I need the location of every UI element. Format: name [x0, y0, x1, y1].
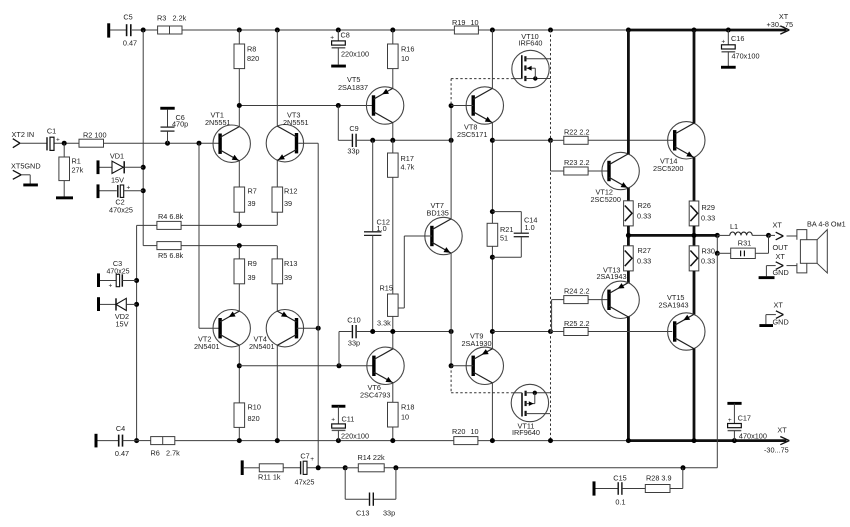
- terminal bar (C15 ground side): [593, 481, 596, 495]
- resistor R3 2.2k: [157, 14, 187, 35]
- svg-text:0.1: 0.1: [615, 498, 625, 507]
- capacitor C9 33p (Miller): [338, 106, 372, 156]
- wire: feedback line to output: [384, 253, 717, 470]
- svg-text:R19: R19: [452, 18, 465, 27]
- resistor R26 0.33: [624, 201, 652, 226]
- svg-text:OUT: OUT: [773, 243, 789, 252]
- svg-text:2SC4793: 2SC4793: [360, 391, 390, 400]
- inductor L1: [717, 222, 771, 238]
- wire: NPN pair tail line: [181, 223, 277, 228]
- svg-text:0.33: 0.33: [701, 214, 715, 223]
- connector XT -30...75 (bottom right): [764, 426, 789, 455]
- svg-text:R31: R31: [738, 239, 751, 248]
- ground (speaker return): [759, 276, 775, 279]
- svg-text:3.3k: 3.3k: [377, 319, 391, 328]
- svg-text:220x100: 220x100: [341, 50, 369, 59]
- svg-text:C15: C15: [613, 474, 626, 483]
- resistor R16 10: [388, 30, 415, 69]
- resistor R22 2.2: [551, 128, 590, 145]
- svg-text:R9: R9: [248, 259, 257, 268]
- svg-text:0.47: 0.47: [123, 39, 137, 48]
- svg-text:R27: R27: [638, 246, 651, 255]
- svg-text:R11 1k: R11 1k: [258, 473, 281, 482]
- svg-text:R8: R8: [247, 45, 256, 54]
- capacitor C15 0.1 (Zobel): [596, 474, 646, 507]
- capacitor C5 0.47: [110, 13, 137, 48]
- svg-text:R6: R6: [151, 449, 160, 458]
- wire: VT3 base to feedback node: [298, 142, 318, 144]
- svg-text:R4 6.8k: R4 6.8k: [158, 212, 183, 221]
- svg-text:R29: R29: [702, 203, 715, 212]
- svg-text:BD135: BD135: [427, 209, 449, 218]
- svg-text:2.7k: 2.7k: [166, 449, 180, 458]
- capacitor C3 470x25 (electrolytic): [100, 259, 137, 290]
- svg-text:R14 22k: R14 22k: [358, 453, 386, 462]
- svg-text:2SA1943: 2SA1943: [597, 272, 627, 281]
- svg-text:IRF640: IRF640: [519, 39, 543, 48]
- svg-text:XT: XT: [773, 221, 783, 230]
- wire: top driver output segment: [492, 138, 553, 143]
- node: feedback node (VT3/VT4 bases): [316, 465, 321, 470]
- svg-text:C4: C4: [116, 424, 125, 433]
- svg-text:R12: R12: [284, 187, 297, 196]
- wire: bottom negative supply rail (thin section): [175, 438, 629, 443]
- capacitor C14 1.0 (across R21): [492, 212, 537, 258]
- svg-text:XT: XT: [774, 301, 784, 310]
- connector XT GND (power ground): [766, 301, 789, 327]
- svg-text:+: +: [330, 34, 334, 41]
- capacitor C2 470x25 (electrolytic): [100, 185, 144, 215]
- capacitor C12 1.0: [364, 140, 390, 331]
- wire: VT12 emitter to R26 (thick): [627, 188, 630, 201]
- resistor R6 2.7k: [137, 437, 181, 458]
- connector XT +30...75 (top right): [767, 12, 794, 34]
- wire: VT7 emitter to VAS bottom rail: [450, 253, 452, 332]
- wire: VT2 collector to R10: [237, 345, 242, 403]
- wire: feedback vertical (VT3/VT4 bases to R14 node): [317, 143, 319, 468]
- svg-text:R22 2.2: R22 2.2: [564, 128, 590, 137]
- wire: R30 to VT15 emitter (thick): [693, 271, 696, 315]
- wire: VT8 collector to +rail: [491, 30, 493, 89]
- svg-text:C9: C9: [349, 124, 358, 133]
- svg-text:R28 3.9: R28 3.9: [646, 474, 672, 483]
- wire: output rail (thick): [626, 233, 720, 238]
- svg-text:GND: GND: [773, 318, 789, 327]
- ground (power): [759, 324, 773, 327]
- svg-text:33p: 33p: [383, 509, 395, 518]
- resistor R17 4.7k: [388, 140, 415, 177]
- svg-text:R7: R7: [248, 187, 257, 196]
- terminal bar (C3 ground side): [97, 273, 100, 287]
- svg-text:+30...75: +30...75: [767, 20, 794, 29]
- resistor R21 51: [487, 223, 513, 246]
- transistor VT5 2SA1837: [338, 75, 404, 124]
- svg-text:2SA1943: 2SA1943: [659, 301, 689, 310]
- svg-text:39: 39: [284, 273, 292, 282]
- svg-text:R26: R26: [638, 201, 651, 210]
- wire: R23 to VT12 base: [588, 170, 607, 172]
- svg-text:10: 10: [471, 427, 479, 436]
- resistor R29 0.33: [689, 201, 715, 226]
- svg-text:2SC5171: 2SC5171: [457, 130, 487, 139]
- transistor VT15 2SA1943: [659, 293, 706, 350]
- wire: VT6 emitter to R18: [392, 383, 394, 403]
- capacitor C6 470p (input filter): [160, 107, 188, 143]
- wire: dashed drain link VT11 (-rail): [550, 332, 552, 441]
- wire: VAS bottom rail: [370, 329, 453, 334]
- svg-text:2SA1930: 2SA1930: [462, 339, 492, 348]
- wire: top positive supply rail (thin section): [110, 28, 628, 33]
- resistor R24 2.2: [552, 287, 590, 332]
- resistor R27 0.33: [624, 235, 652, 271]
- resistor R28 3.9 (Zobel): [645, 468, 683, 493]
- svg-text:2N5551: 2N5551: [205, 118, 231, 127]
- connector XT2 IN (input): [12, 130, 47, 148]
- capacitor C17 470x100 (electrolytic to ground): [727, 402, 767, 441]
- wire: VT2 emitter to R9: [238, 284, 240, 312]
- svg-text:+: +: [331, 417, 335, 424]
- wire: VT8 base tie: [449, 103, 454, 140]
- connector XT OUT: [769, 221, 794, 253]
- svg-text:33p: 33p: [348, 339, 360, 348]
- wire: VT8 emitter down to R21: [490, 123, 495, 224]
- wire: VT12 collector to +rail (thick): [627, 30, 630, 154]
- svg-text:10: 10: [471, 18, 479, 27]
- trimmer R15 3.3k: [377, 177, 404, 331]
- svg-text:R16: R16: [401, 45, 414, 54]
- resistor R9 39: [234, 246, 257, 284]
- zener diode VD1 15V: [100, 152, 144, 185]
- transistor VT7 BD135 (bias servo): [425, 201, 462, 255]
- svg-text:C11: C11: [342, 415, 355, 424]
- terminal bar (VD2 ground side): [97, 297, 100, 311]
- svg-text:R10: R10: [248, 403, 261, 412]
- wire: bottom negative supply rail (thick section): [626, 438, 787, 443]
- svg-text:R13: R13: [284, 259, 297, 268]
- svg-text:C13: C13: [356, 509, 369, 518]
- wire: VT4 emitter to R13: [276, 284, 278, 312]
- wire: R15 wiper to VT7 base: [404, 235, 432, 237]
- svg-text:R24 2.2: R24 2.2: [564, 287, 590, 296]
- wire: R27 to VT13 emitter (thick): [627, 271, 630, 283]
- zener diode VD2 15V: [100, 298, 137, 328]
- svg-text:BA 4-8 Ом1: BA 4-8 Ом1: [807, 220, 846, 229]
- svg-text:39: 39: [248, 199, 256, 208]
- wire: VT14 emitter to R29 (thick): [693, 157, 696, 201]
- svg-text:C7: C7: [300, 452, 309, 461]
- wire: VT9 collector to -rail: [491, 383, 493, 441]
- svg-text:VD1: VD1: [110, 152, 124, 161]
- svg-text:R18: R18: [401, 403, 414, 412]
- speaker BA 4-8 Om1: [794, 220, 846, 274]
- wire: PNP pair tail line: [181, 243, 277, 248]
- svg-text:15V: 15V: [111, 176, 124, 185]
- transistor VT12 2SC5200: [591, 152, 640, 204]
- svg-text:1.0: 1.0: [525, 223, 535, 232]
- mosfet VT10 IRF640: [512, 32, 551, 88]
- transistor VT13 2SA1943: [597, 265, 640, 318]
- wire: VT3 emitter to R12: [276, 160, 278, 187]
- capacitor C11 220x100 (electrolytic to ground): [331, 405, 369, 441]
- connector XT GND (speaker return): [766, 252, 793, 277]
- svg-text:27k: 27k: [72, 166, 84, 175]
- wire: VT3 collector to +rail: [276, 30, 278, 126]
- ground (R1): [56, 196, 73, 199]
- svg-text:IRF9640: IRF9640: [512, 428, 540, 437]
- wire: bottom driver output segment: [492, 329, 553, 334]
- resistor R18 10: [388, 402, 415, 440]
- svg-text:R25 2.2: R25 2.2: [564, 319, 590, 328]
- wire: VT7 collector to VAS top rail: [450, 140, 452, 219]
- capacitor C7 47x25 (electrolytic): [283, 452, 345, 487]
- svg-text:820: 820: [247, 54, 259, 63]
- svg-text:C17: C17: [738, 414, 751, 423]
- wire: R24 to VT13 base: [588, 299, 607, 301]
- svg-text:39: 39: [248, 273, 256, 282]
- resistor R19 10: [452, 18, 479, 34]
- capacitor C16 470x100 (electrolytic to ground): [721, 30, 760, 69]
- svg-text:2.2k: 2.2k: [173, 14, 187, 23]
- capacitor C10 33p (Miller): [339, 316, 373, 366]
- svg-text:470x100: 470x100: [739, 432, 767, 441]
- terminal bar (C2 ground side): [97, 184, 100, 198]
- svg-text:XT5GND: XT5GND: [11, 162, 41, 171]
- wire: VT4 collector to -rail: [276, 345, 278, 440]
- svg-text:47x25: 47x25: [295, 478, 315, 487]
- svg-text:+: +: [721, 39, 725, 46]
- svg-text:R20: R20: [452, 427, 465, 436]
- svg-text:C16: C16: [731, 34, 744, 43]
- wire: R25 to VT15 base: [588, 331, 672, 333]
- svg-text:470x25: 470x25: [109, 206, 133, 215]
- svg-text:R3: R3: [157, 14, 166, 23]
- svg-text:0.47: 0.47: [115, 449, 129, 458]
- transistor VT9 2SA1930: [462, 332, 504, 385]
- wire: R26 to output node (thick): [627, 226, 630, 236]
- svg-text:2SC5200: 2SC5200: [653, 164, 683, 173]
- wire: R21 bottom to VT9 emitter: [490, 246, 495, 348]
- svg-text:+: +: [56, 137, 60, 144]
- svg-text:R23 2.2: R23 2.2: [564, 158, 590, 167]
- terminal bar (R11 ground side): [241, 460, 244, 475]
- wire: R29 to output node (thick): [693, 226, 696, 236]
- svg-text:+: +: [728, 417, 732, 424]
- wire: VAS top rail: [370, 138, 453, 143]
- wire: VT9 base tie: [449, 332, 454, 369]
- svg-text:470p: 470p: [172, 119, 188, 128]
- svg-text:C10: C10: [347, 316, 360, 325]
- svg-text:10: 10: [401, 413, 409, 422]
- wire: VT14 collector to +rail (thick): [693, 30, 696, 123]
- transistor VT2 2N5401: [194, 310, 250, 352]
- svg-text:XT2 IN: XT2 IN: [12, 130, 35, 139]
- resistor R31 (with inner marks): [715, 235, 769, 258]
- svg-text:C8: C8: [341, 31, 350, 40]
- svg-text:1.0: 1.0: [377, 224, 387, 233]
- svg-text:0.33: 0.33: [637, 257, 651, 266]
- resistor R14 22k: [343, 453, 385, 472]
- transistor VT14 2SC5200: [653, 122, 705, 173]
- transistor VT1 2N5551: [205, 111, 250, 163]
- resistor R1 27k: [59, 143, 84, 197]
- terminal bar (VD1 ground side): [97, 160, 100, 174]
- svg-text:XT: XT: [777, 426, 787, 435]
- wire: dashed drain/source link VT10 (+rail to driver node): [550, 30, 552, 140]
- resistor R12 39: [272, 187, 297, 226]
- wire: VT2 collector load line to VT6 base: [239, 363, 373, 368]
- transistor VT6 2SC4793: [360, 347, 404, 399]
- svg-text:2N5551: 2N5551: [283, 118, 309, 127]
- resistor R11 1k: [244, 464, 283, 482]
- svg-text:2N5401: 2N5401: [194, 342, 220, 351]
- resistor R20 10: [452, 427, 479, 445]
- transistor VT3 2N5551 (mirrored): [266, 111, 308, 162]
- svg-text:2N5401: 2N5401: [249, 342, 275, 351]
- svg-text:33p: 33p: [347, 147, 359, 156]
- wire: VT8 base: [451, 105, 473, 107]
- resistor R30 0.33: [689, 235, 715, 271]
- svg-text:+: +: [310, 456, 314, 463]
- connector XT5 GND: [11, 162, 41, 184]
- wire: VT15 collector to -rail (thick): [693, 348, 696, 440]
- wire: top positive supply rail (thick section): [626, 28, 787, 33]
- svg-text:R30: R30: [702, 247, 715, 256]
- wire: VT13 collector to -rail (thick): [627, 317, 630, 441]
- wire: dashed gate link VT10 to VT8 base: [451, 79, 512, 104]
- svg-text:51: 51: [500, 234, 508, 243]
- svg-text:R5 6.8k: R5 6.8k: [158, 251, 183, 260]
- wire: -15V reference vertical (node B): [134, 225, 139, 443]
- resistor R7 39: [234, 187, 257, 226]
- wire: VT5 emitter to R16: [392, 69, 394, 89]
- wire: R22 to VT14 base: [588, 139, 673, 141]
- svg-text:C3: C3: [113, 259, 122, 268]
- wire: dashed thermal/alt vertical (mid): [550, 140, 552, 331]
- svg-text:220x100: 220x100: [341, 432, 369, 441]
- svg-text:4.7k: 4.7k: [401, 163, 415, 172]
- wire: +15V reference vertical (node A): [141, 30, 146, 246]
- wire: input node to VT1 base: [104, 141, 220, 146]
- resistor R25 2.2: [551, 319, 590, 336]
- resistor R5 6.8k: [143, 242, 183, 260]
- svg-text:+: +: [109, 283, 113, 290]
- wire: VT1 emitter to R7: [238, 161, 240, 187]
- svg-text:2SC5200: 2SC5200: [591, 195, 621, 204]
- svg-text:0.33: 0.33: [637, 212, 651, 221]
- capacitor C4 0.47: [98, 424, 137, 458]
- svg-text:GND: GND: [773, 268, 789, 277]
- transistor VT8 2SC5171: [457, 87, 503, 139]
- svg-text:R2 100: R2 100: [83, 131, 107, 140]
- svg-text:-30...75: -30...75: [764, 446, 789, 455]
- svg-text:0.33: 0.33: [701, 257, 715, 266]
- wire: VT4 base to feedback node: [297, 326, 321, 331]
- capacitor C8 220x100 (electrolytic to ground): [330, 30, 369, 68]
- resistor R13 39: [272, 246, 297, 284]
- wire: VT1 collector: [238, 106, 240, 127]
- svg-text:L1: L1: [730, 222, 738, 231]
- svg-text:15V: 15V: [116, 320, 129, 329]
- transistor VT4 2N5401 (mirrored): [249, 310, 304, 352]
- wire: VT6 collector: [392, 332, 394, 349]
- resistor R23 2.2: [551, 140, 590, 175]
- svg-text:820: 820: [248, 414, 260, 423]
- terminal bar (C4 ground side): [95, 434, 98, 448]
- svg-text:R1: R1: [72, 157, 81, 166]
- mosfet VT11 IRF9640: [511, 384, 550, 437]
- svg-text:XT: XT: [776, 252, 786, 261]
- svg-text:2SA1837: 2SA1837: [338, 83, 368, 92]
- svg-text:10: 10: [401, 54, 409, 63]
- resistor R8 820: [234, 30, 259, 106]
- svg-text:C1: C1: [47, 127, 56, 136]
- capacitor C13 33p (across R14): [345, 468, 396, 518]
- wire: VT9 base: [451, 365, 473, 367]
- resistor R4 6.8k: [137, 212, 184, 229]
- wire: VT1 collector load line to VT5 base: [237, 103, 373, 108]
- wire: VT5 collector: [392, 123, 394, 141]
- svg-text:470x100: 470x100: [732, 52, 760, 61]
- capacitor C1 (input coupling): [47, 127, 79, 151]
- svg-text:R15: R15: [380, 284, 393, 293]
- ground (XT5): [23, 184, 38, 187]
- resistor R2 100: [79, 131, 107, 148]
- wire: dashed gate link VT11 to VT9 base: [451, 366, 511, 393]
- svg-text:C5: C5: [123, 13, 132, 22]
- wire: input to VT2 base: [199, 143, 219, 328]
- svg-text:39: 39: [284, 199, 292, 208]
- terminal bar (C5 ground side): [107, 23, 110, 37]
- resistor R10 820: [234, 403, 261, 441]
